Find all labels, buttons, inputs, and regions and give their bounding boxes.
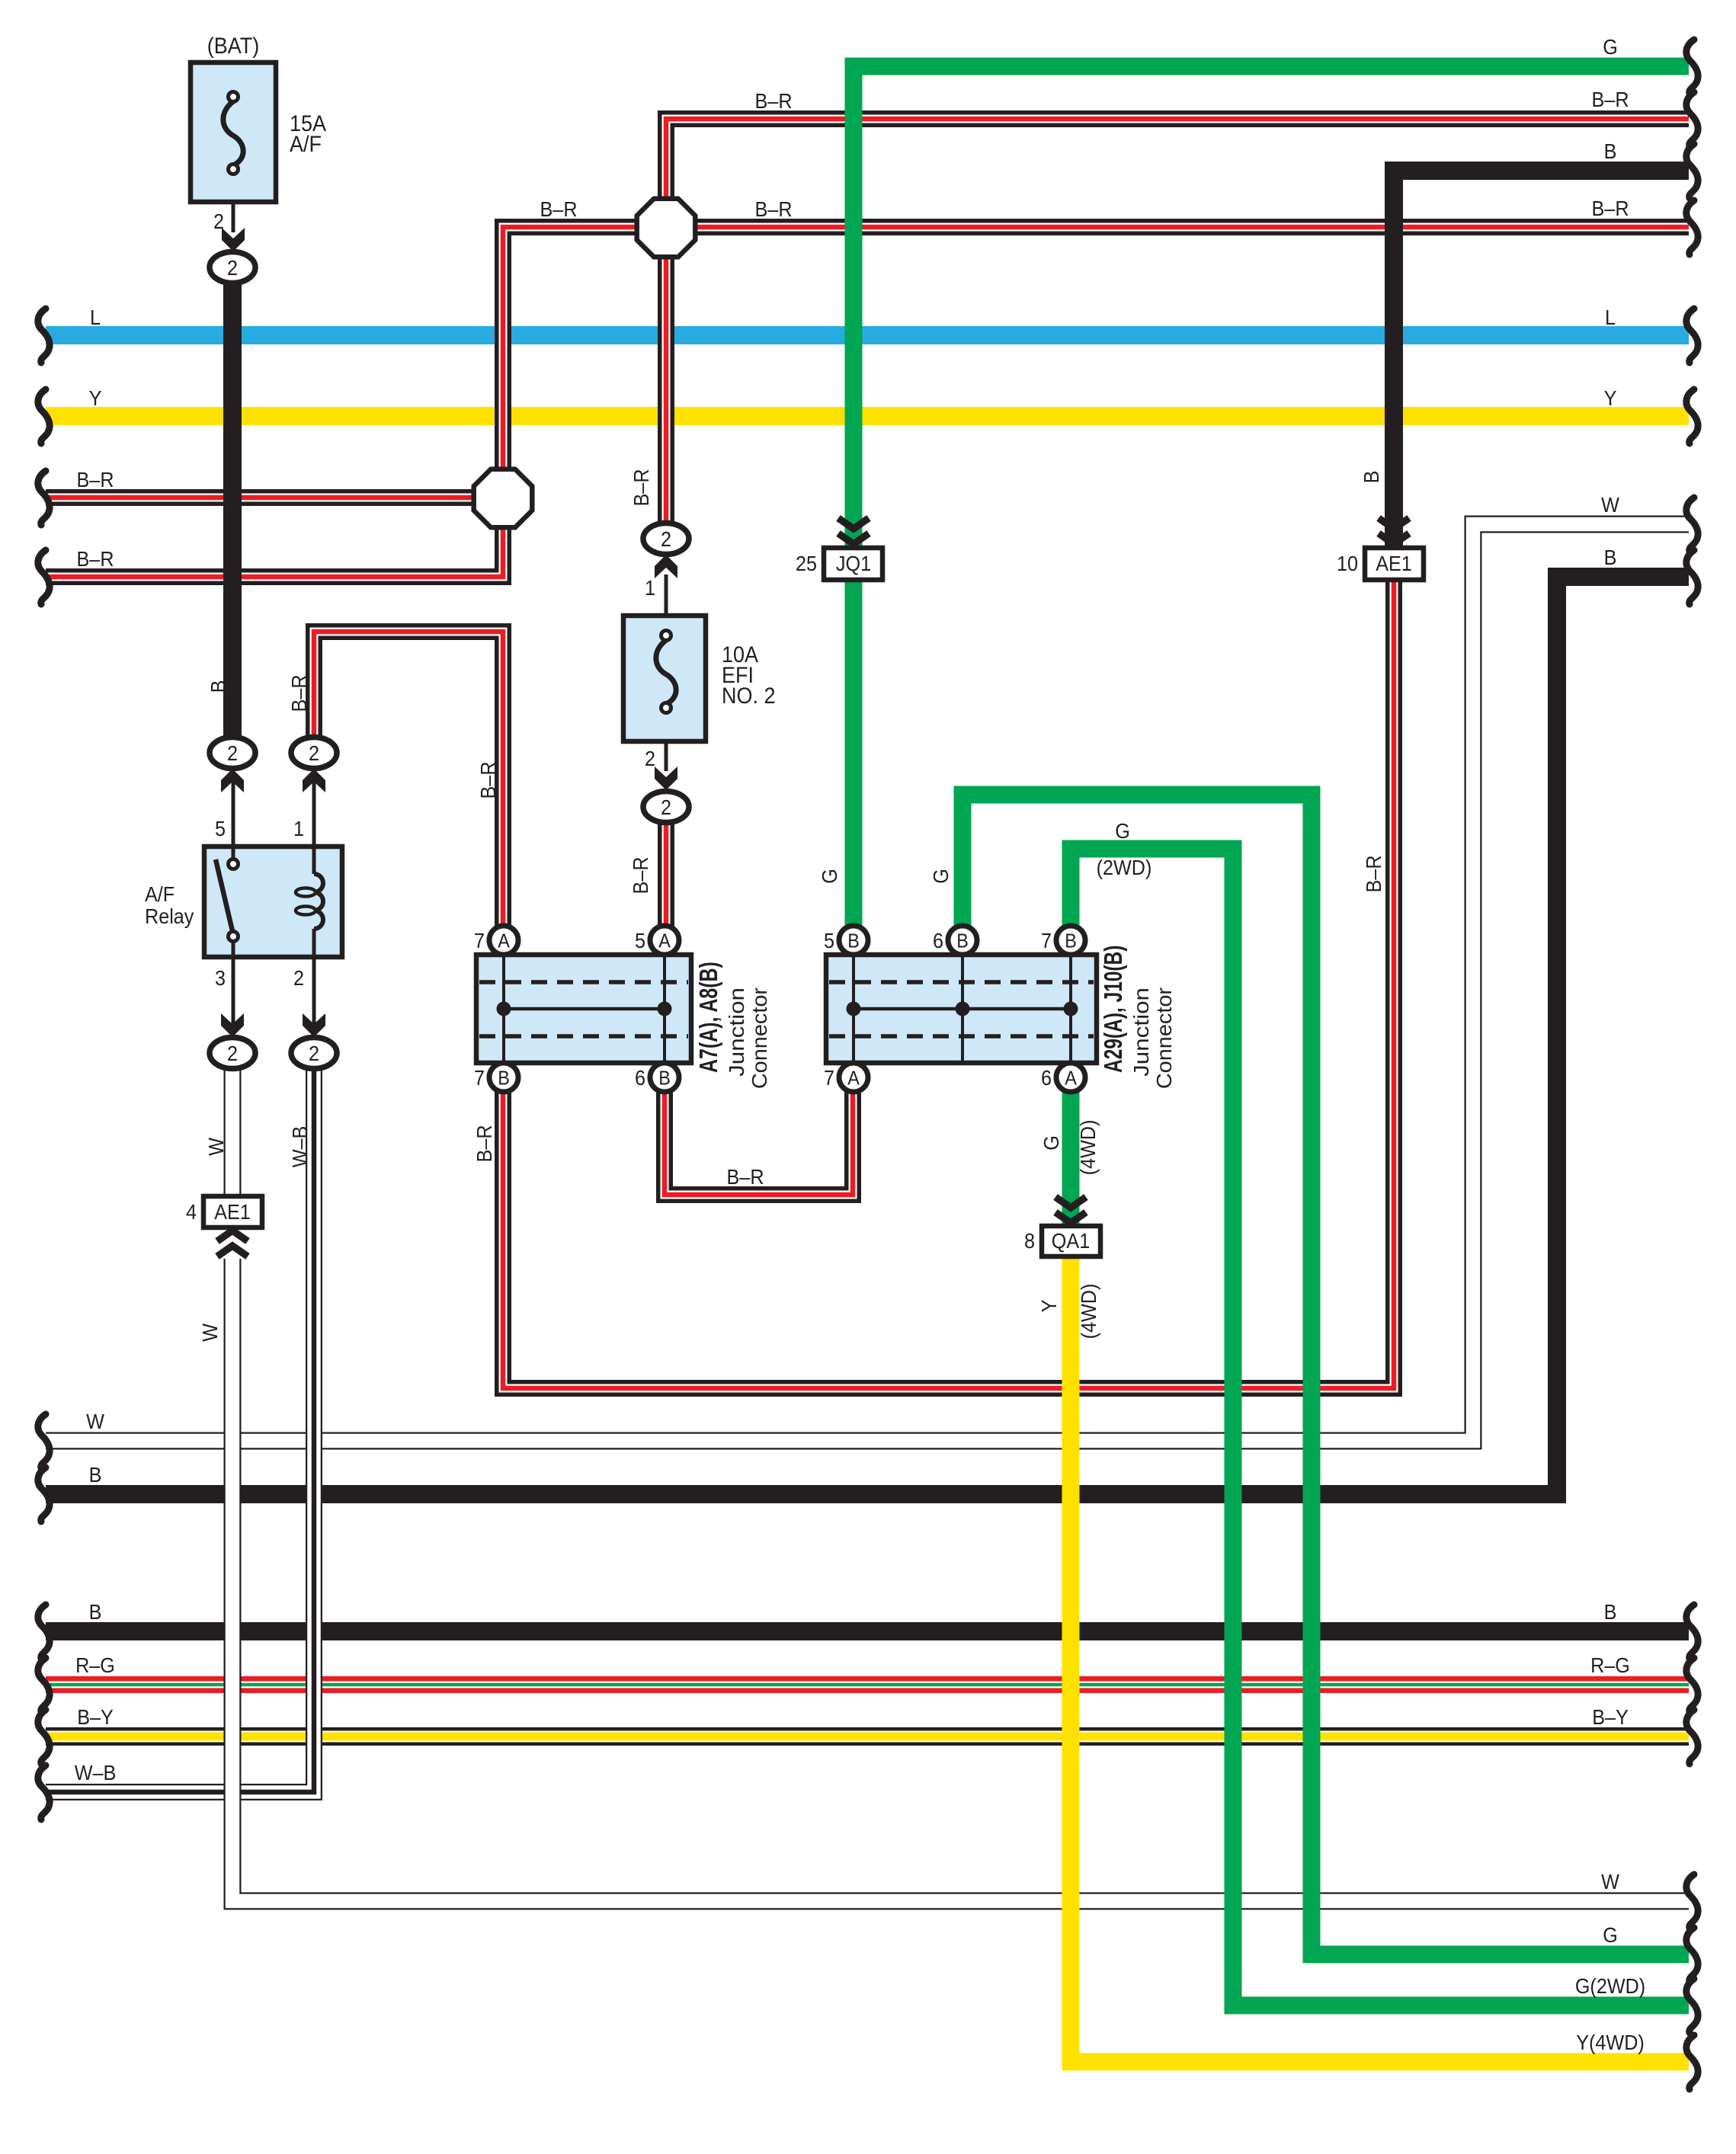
svg-text:R–G: R–G <box>1590 1653 1630 1678</box>
svg-text:B–R: B–R <box>754 197 792 222</box>
svg-text:B–R: B–R <box>76 468 114 492</box>
svg-text:(4WD): (4WD) <box>1076 1120 1100 1176</box>
connector AE1 pin 4 with double chevron <box>186 1196 262 1256</box>
connector AE1 pin 10 with double chevron <box>1337 518 1424 580</box>
svg-text:7: 7 <box>824 1066 834 1090</box>
svg-text:A29(A), J10(B): A29(A), J10(B) <box>1100 946 1128 1073</box>
svg-text:Y(4WD): Y(4WD) <box>1576 2031 1645 2055</box>
node octagon junction lower (B-R) <box>474 469 533 528</box>
pin 6A of A29(A) junction connector <box>1041 1063 1085 1092</box>
connector node 2 above EFI fuse <box>643 523 689 555</box>
svg-text:6: 6 <box>933 929 943 953</box>
svg-text:B: B <box>956 930 969 952</box>
pin 5A of A7(A) junction connector <box>635 926 679 955</box>
pin 1 of EFI fuse with arrow into connector <box>645 555 677 616</box>
wire B-R from A/F relay coil up and over to junction pin 7A <box>314 632 503 929</box>
svg-text:A7(A), A8(B): A7(A), A8(B) <box>695 962 723 1073</box>
node octagon junction upper (B-R) <box>637 199 696 258</box>
svg-text:10: 10 <box>1337 552 1358 576</box>
wire G green (4WD) from junction pin 6A to connector QA1 pin 8 <box>1062 1090 1080 1224</box>
svg-text:A/F: A/F <box>290 132 322 158</box>
svg-text:5: 5 <box>215 817 226 841</box>
svg-text:Connector: Connector <box>1152 987 1177 1089</box>
connector node 2 below relay pin 2 <box>291 1038 337 1069</box>
pin 2 of A/F fuse with arrow into connector <box>213 202 245 251</box>
svg-text:G: G <box>818 869 842 884</box>
pin 3 of A/F relay with arrow down into connector <box>215 957 244 1037</box>
svg-text:B–R: B–R <box>629 469 654 506</box>
pin 7A of A29(A) junction connector <box>824 1063 868 1092</box>
connector node 2 above relay pin 5 <box>210 738 255 769</box>
svg-text:B–R: B–R <box>287 674 312 712</box>
wire B-R from corner down to lower octagon (left segment of upper B-R run) <box>503 227 639 471</box>
wire B-R upper-left horizontal into octagon node <box>46 489 476 506</box>
svg-text:B–R: B–R <box>1591 88 1629 112</box>
wire G green (2WD) from junction pin 7B up over and down to right edge exit G(2WD) <box>1071 849 1689 2005</box>
svg-text:2: 2 <box>227 741 238 766</box>
svg-text:B: B <box>207 680 231 693</box>
wire name labels left edge <box>75 306 117 1785</box>
wire B-R from EFI fuse connector down to junction pin 5A <box>658 821 674 929</box>
svg-text:A: A <box>847 1067 860 1089</box>
wire W from relay pin 3 to connector AE1 pin 4 <box>224 1068 242 1196</box>
wire B-Y bus <box>46 1727 1689 1746</box>
pin 6B of J10(B) junction connector <box>933 926 977 955</box>
svg-text:2: 2 <box>645 747 655 771</box>
svg-text:2: 2 <box>309 1042 319 1066</box>
svg-text:(BAT): (BAT) <box>207 34 259 59</box>
pin 5 of A/F relay with arrow up into connector <box>215 769 244 847</box>
svg-text:Junction: Junction <box>1129 987 1154 1077</box>
svg-text:NO. 2: NO. 2 <box>722 683 775 709</box>
svg-text:B–R: B–R <box>726 1165 764 1189</box>
svg-text:AE1: AE1 <box>214 1200 251 1224</box>
wire name labels rotated on vertical wires <box>198 469 1386 1341</box>
label A7(A), A8(B) Junction Connector <box>695 962 772 1089</box>
svg-text:2: 2 <box>661 795 671 820</box>
connector QA1 pin 8 with double chevron <box>1024 1197 1100 1256</box>
svg-text:A/F: A/F <box>145 882 175 907</box>
svg-text:B: B <box>1065 930 1077 952</box>
svg-text:1: 1 <box>293 817 304 841</box>
wire W white from right edge down and left to left edge <box>46 524 1689 1441</box>
svg-text:B–R: B–R <box>76 547 114 571</box>
svg-text:W: W <box>1601 493 1620 517</box>
fuse 15A A/F with (BAT) supply <box>191 62 276 202</box>
pin 7B of J10(B) junction connector <box>1041 926 1085 955</box>
svg-text:R–G: R–G <box>75 1653 115 1678</box>
svg-text:Y: Y <box>1604 386 1617 411</box>
connector node 2 above relay pin 1 <box>291 738 337 769</box>
svg-text:(2WD): (2WD) <box>1097 856 1152 880</box>
svg-text:B–R: B–R <box>1362 855 1386 892</box>
wire G green from junction pin 6B up over and down to right edge exit G <box>962 795 1689 1954</box>
svg-text:7: 7 <box>474 1066 485 1090</box>
svg-text:A: A <box>658 930 671 952</box>
svg-text:B–Y: B–Y <box>1592 1705 1629 1730</box>
svg-text:B–R: B–R <box>540 197 577 222</box>
fuse 10A EFI NO. 2 <box>623 616 706 741</box>
svg-text:25: 25 <box>796 552 817 576</box>
svg-text:G: G <box>1603 35 1618 59</box>
wire W-B from relay pin 2 down to left edge <box>46 1068 314 1792</box>
svg-text:G(2WD): G(2WD) <box>1575 1974 1645 1999</box>
svg-text:L: L <box>90 306 101 330</box>
svg-text:G: G <box>929 869 953 884</box>
svg-text:B–R: B–R <box>1591 197 1629 221</box>
svg-text:B–R: B–R <box>754 89 792 114</box>
wire B-R big U from junction connector pin 7B to connector AE1 pin 10 <box>503 581 1394 1388</box>
label A29(A), J10(B) Junction Connector <box>1100 946 1177 1090</box>
svg-text:B–Y: B–Y <box>77 1705 114 1730</box>
svg-text:2: 2 <box>293 966 304 991</box>
svg-text:B: B <box>89 1463 102 1487</box>
pin 2 of EFI fuse with arrow into connector <box>645 741 677 790</box>
svg-text:7: 7 <box>1041 929 1052 953</box>
svg-text:2: 2 <box>227 1042 238 1066</box>
wire B-R from upper octagon to right edge <box>696 219 1689 235</box>
junction connector A29(A), J10(B) <box>826 955 1097 1063</box>
svg-text:5: 5 <box>635 929 645 953</box>
svg-text:B–R: B–R <box>629 856 653 894</box>
junction connector A7(A), A8(B) <box>476 955 691 1063</box>
wire break symbols left edge <box>38 309 50 1820</box>
wire B thick from left edge right then up to right edge <box>46 577 1689 1494</box>
svg-text:6: 6 <box>1041 1066 1052 1090</box>
wire break symbols right edge <box>1686 40 1698 2089</box>
pin 5B of J10(B) junction connector <box>824 926 868 955</box>
wire G green below JQ1 to junction pin 5B <box>845 578 863 930</box>
svg-text:Y: Y <box>1037 1299 1062 1312</box>
svg-text:2: 2 <box>309 741 319 766</box>
svg-text:G: G <box>1603 1923 1618 1948</box>
svg-text:W: W <box>198 1323 223 1342</box>
svg-text:2: 2 <box>213 210 224 234</box>
svg-text:G: G <box>1039 1135 1064 1151</box>
wire Y yellow bus <box>46 407 1689 425</box>
svg-text:B–R: B–R <box>476 761 501 799</box>
svg-text:4: 4 <box>186 1200 197 1224</box>
wire name labels right edge <box>1575 35 1645 2055</box>
svg-text:7: 7 <box>474 929 485 953</box>
wire name labels mid-span <box>540 89 1151 1189</box>
svg-text:JQ1: JQ1 <box>836 552 871 576</box>
label 15A A/F <box>290 111 326 158</box>
svg-text:8: 8 <box>1024 1229 1035 1253</box>
svg-text:W–B: W–B <box>288 1126 312 1168</box>
wire L blue bus <box>46 326 1689 344</box>
svg-text:B: B <box>498 1067 510 1089</box>
pin 7B of A8(B) junction connector <box>474 1063 518 1092</box>
svg-text:B: B <box>847 930 860 952</box>
svg-text:B: B <box>1360 471 1384 484</box>
wire B thick from A/F fuse down to relay connector <box>223 283 242 739</box>
svg-text:3: 3 <box>215 966 226 991</box>
svg-text:Y: Y <box>89 386 102 411</box>
svg-text:W: W <box>86 1410 105 1434</box>
wire R-G bus <box>46 1676 1689 1693</box>
connector JQ1 pin 25 with double chevron <box>796 518 882 580</box>
svg-text:B: B <box>1604 546 1617 570</box>
pin 6B of A8(B) junction connector <box>635 1063 679 1092</box>
connector node 2 below EFI fuse <box>643 792 689 823</box>
svg-text:L: L <box>1605 306 1616 330</box>
pin 7A of A7(A) junction connector <box>474 926 518 955</box>
svg-text:5: 5 <box>824 929 834 953</box>
svg-text:(4WD): (4WD) <box>1077 1284 1101 1339</box>
wire B thick lower bus <box>46 1622 1689 1640</box>
relay A/F Relay <box>204 847 342 957</box>
svg-text:Connector: Connector <box>748 987 772 1089</box>
svg-text:G: G <box>1115 819 1130 843</box>
wire B-R from upper octagon down to EFI fuse connector <box>658 255 674 524</box>
wire B-R top horizontal from upper octagon to right edge <box>666 119 1689 200</box>
svg-text:2: 2 <box>661 527 671 552</box>
svg-text:Relay: Relay <box>145 904 194 929</box>
label A/F Relay <box>145 882 194 929</box>
svg-text:W: W <box>1601 1870 1620 1894</box>
wire G green from right edge to junction block JQ1 <box>854 66 1689 546</box>
svg-text:A: A <box>1065 1067 1077 1089</box>
svg-text:B: B <box>658 1067 671 1089</box>
wire B-R lower-left horizontal up into octagon node <box>46 526 503 577</box>
svg-text:1: 1 <box>645 576 655 600</box>
svg-text:AE1: AE1 <box>1376 552 1412 576</box>
svg-text:A: A <box>498 930 510 952</box>
pin 1 of A/F relay with arrow up into connector <box>293 769 325 847</box>
svg-text:B: B <box>1604 1600 1617 1624</box>
svg-text:B: B <box>1604 139 1617 164</box>
wire Y yellow (4WD) from QA1 down then right to right edge exit Y(4WD) <box>1071 1256 1689 2062</box>
wire W below AE1 pin 4 down then right to right edge <box>232 1259 1689 1901</box>
svg-text:QA1: QA1 <box>1052 1229 1090 1253</box>
svg-text:Junction: Junction <box>725 987 749 1077</box>
pin 2 of A/F relay with arrow down into connector <box>293 957 325 1037</box>
svg-text:2: 2 <box>227 256 238 280</box>
connector node 2 below A/F fuse <box>210 252 255 283</box>
connector node 2 below relay pin 3 <box>210 1038 255 1069</box>
svg-text:B: B <box>89 1600 102 1624</box>
label 10A EFI NO. 2 <box>722 642 775 709</box>
svg-text:6: 6 <box>635 1066 645 1090</box>
wire B-R link from junction pin 6B to junction pin 7A <box>665 1089 853 1195</box>
svg-text:W–B: W–B <box>75 1761 117 1785</box>
svg-text:W: W <box>204 1137 229 1156</box>
svg-text:B–R: B–R <box>472 1125 497 1162</box>
wire B thick from right edge down to connector AE1 pin 10 <box>1394 171 1689 546</box>
